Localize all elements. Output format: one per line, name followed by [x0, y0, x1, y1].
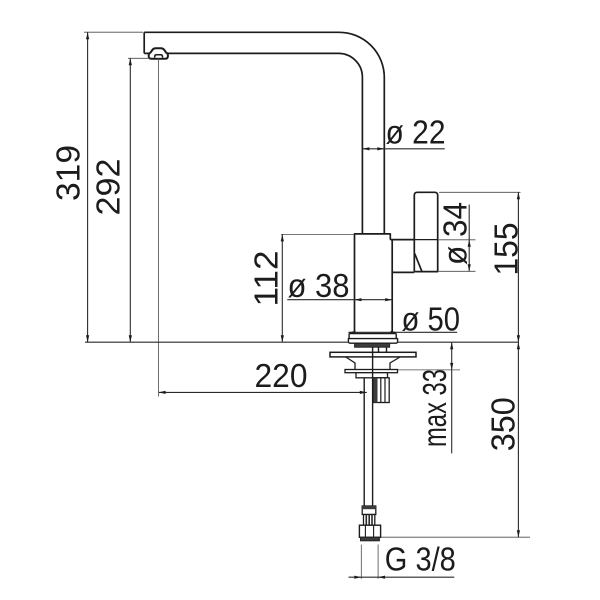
svg-text:ø 34: ø 34	[437, 202, 474, 265]
svg-text:112: 112	[248, 251, 285, 307]
svg-text:max 33: max 33	[416, 369, 453, 447]
svg-text:G 3/8: G 3/8	[385, 540, 456, 577]
svg-text:319: 319	[50, 145, 87, 201]
svg-text:350: 350	[485, 397, 522, 451]
svg-text:155: 155	[488, 223, 525, 276]
svg-text:ø 50: ø 50	[402, 300, 461, 337]
svg-text:ø 38: ø 38	[288, 267, 350, 304]
svg-text:220: 220	[255, 357, 308, 394]
svg-text:292: 292	[89, 159, 126, 216]
svg-text:ø 22: ø 22	[386, 113, 446, 150]
